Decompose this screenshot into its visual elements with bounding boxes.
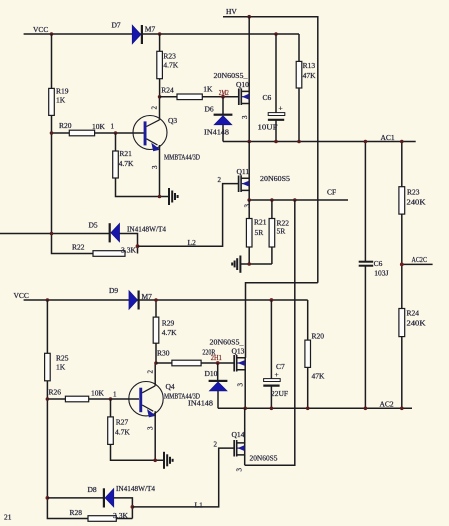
svg-text:M7: M7 <box>145 25 156 34</box>
svg-text:C6: C6 <box>263 93 272 102</box>
junction AC1/R23 branch <box>400 140 404 144</box>
junction gate/D6 <box>221 95 225 99</box>
node HV <box>226 7 237 16</box>
svg-text:R23: R23 <box>407 188 420 197</box>
svg-text:4.7K: 4.7K <box>163 61 178 70</box>
resistor R13 47K <box>296 34 316 142</box>
net label 2H1 <box>211 354 222 362</box>
svg-text:3: 3 <box>241 115 249 119</box>
svg-text:3: 3 <box>236 468 244 472</box>
node VCC (bottom) <box>14 291 29 300</box>
junction base/R27 <box>109 397 113 401</box>
resistor R24 240K <box>399 309 426 409</box>
pin 3 label Q10 source <box>241 115 249 119</box>
junction D8 tee <box>46 496 50 500</box>
svg-text:D8: D8 <box>88 485 97 494</box>
capacitor C6 10UF <box>258 34 285 142</box>
svg-text:AC2C: AC2C <box>412 255 428 264</box>
junction AC1/C6 <box>274 140 278 144</box>
svg-text:R24: R24 <box>161 86 174 95</box>
svg-text:4.7K: 4.7K <box>119 159 134 168</box>
svg-text:IN4148W/T4: IN4148W/T4 <box>127 225 166 234</box>
wire Q10 source to AC1 <box>248 104 250 142</box>
resistor R21 4.7K <box>113 133 169 197</box>
svg-text:R19: R19 <box>56 87 69 96</box>
svg-text:2: 2 <box>218 176 222 184</box>
wire left input row <box>0 233 109 235</box>
svg-text:240K: 240K <box>407 319 427 328</box>
node AC2C <box>402 255 433 265</box>
net label 2M2 <box>219 89 229 97</box>
resistor R20 47K <box>305 300 325 408</box>
junction base/R21 <box>114 131 118 135</box>
svg-text:20N60S5: 20N60S5 <box>250 454 278 463</box>
svg-text:3.3K: 3.3K <box>121 246 137 255</box>
svg-text:1K: 1K <box>56 363 66 372</box>
wire Q13 source to AC2 <box>244 370 246 409</box>
wire Q11 drain <box>248 142 250 179</box>
wire Q14 source down <box>244 455 246 465</box>
svg-text:D6: D6 <box>205 105 214 114</box>
diode D7 <box>112 21 156 45</box>
svg-text:4.7K: 4.7K <box>162 328 177 337</box>
wire L1 to Q14 gate <box>132 448 234 509</box>
junction CF/R21 <box>247 198 251 202</box>
diode D8 IN4148W/T4 <box>47 484 155 519</box>
wire VCC bottom rail <box>24 299 308 301</box>
junction AC2/C7 <box>270 407 274 411</box>
resistor R21 5R <box>246 200 266 264</box>
resistor R26 10K <box>49 388 105 402</box>
svg-text:CF: CF <box>327 188 336 197</box>
svg-text:R24: R24 <box>407 309 420 318</box>
svg-text:47K: 47K <box>303 71 317 80</box>
svg-text:1K: 1K <box>203 85 213 94</box>
resistor R25 1K <box>45 353 69 381</box>
svg-text:20N60S5: 20N60S5 <box>260 174 290 183</box>
transistor Q4 MMBTA44/3D <box>129 382 201 418</box>
wire L2 to Q11 gate <box>138 184 239 247</box>
junction emitter/ground row (bottom) <box>153 459 157 463</box>
pin 3 label Q11 source <box>244 204 252 208</box>
svg-text:+: + <box>279 104 283 113</box>
svg-text:3.3K: 3.3K <box>113 511 129 520</box>
svg-text:2H1: 2H1 <box>211 354 222 362</box>
svg-text:R29: R29 <box>162 319 175 328</box>
svg-text:Q11: Q11 <box>237 167 250 176</box>
svg-text:2: 2 <box>151 106 159 110</box>
wire Q4 emitter to ground <box>154 411 156 460</box>
svg-text:22UF: 22UF <box>271 389 288 398</box>
resistor R28 3.3K row <box>70 508 133 521</box>
svg-text:Q4: Q4 <box>166 382 175 391</box>
junction AC1/branch <box>364 140 368 144</box>
resistor R23 4.7K <box>157 34 179 97</box>
svg-text:10UF: 10UF <box>258 123 278 132</box>
svg-text:R21: R21 <box>119 149 132 158</box>
resistor R20 10K <box>59 121 106 136</box>
junction VCC/R29 <box>154 298 158 302</box>
junction L1 tee <box>131 505 135 509</box>
wire HV rail <box>223 17 318 283</box>
mosfet Q11 20N60S5 <box>237 167 291 192</box>
wire AC1 rail <box>223 133 416 142</box>
wire Q3 emitter to ground <box>159 145 161 197</box>
svg-text:R20: R20 <box>59 121 72 130</box>
svg-text:20N60S5_: 20N60S5_ <box>210 338 244 347</box>
svg-text:R26: R26 <box>49 388 62 397</box>
junction AC2/R20 <box>306 407 310 411</box>
svg-text:1: 1 <box>111 123 115 131</box>
junction HV/Q10 drain <box>247 15 251 19</box>
net label 21 (edge) <box>4 513 12 522</box>
mosfet Q13 20N60S5 <box>210 338 246 372</box>
wire AC1 to C6-103J branch <box>364 142 366 262</box>
resistor R19 1K <box>49 87 69 116</box>
svg-text:5R: 5R <box>277 227 286 236</box>
svg-text:R28: R28 <box>70 508 83 517</box>
resistor R27 4.7K <box>108 399 164 460</box>
junction emitter/ground row <box>158 195 162 199</box>
pin 3 label Q3 emitter <box>151 165 159 169</box>
wire CF down to Q14 source <box>245 200 295 465</box>
ground (sense resistors) <box>232 256 240 273</box>
svg-text:R21: R21 <box>254 218 267 227</box>
svg-text:AC2: AC2 <box>380 400 394 409</box>
transistor Q3 MMBTA44/3D <box>133 116 200 162</box>
pin 3 label Q4 emitter <box>146 426 154 430</box>
pin 1 label Q4 base <box>113 391 117 399</box>
junction VCC rail/C6 <box>274 32 278 36</box>
junction AC1/Q10-Q11 <box>247 140 251 144</box>
capacitor C6 103J <box>359 259 389 408</box>
svg-text:Q10: Q10 <box>236 80 249 89</box>
junction ground row/R21 <box>247 262 251 266</box>
svg-text:R20: R20 <box>312 332 325 341</box>
wire Q14 drain <box>244 408 246 443</box>
junction CF/down-to-Q14 <box>293 198 297 202</box>
svg-text:21: 21 <box>4 513 12 522</box>
wire Q3 collector <box>159 97 161 120</box>
svg-text:47K: 47K <box>312 372 326 381</box>
pin 2 label Q11 gate <box>218 176 222 184</box>
mosfet Q14 20N60S5 <box>232 430 278 463</box>
diode D6 IN4148 <box>204 97 232 142</box>
svg-text:C6: C6 <box>374 259 383 268</box>
svg-text:MMBTA44/3D: MMBTA44/3D <box>164 153 200 162</box>
svg-text:IN4148: IN4148 <box>188 399 213 408</box>
resistor R30 220R row <box>156 348 234 366</box>
wire AC1 to R23-240K branch <box>401 142 403 187</box>
svg-text:Q14: Q14 <box>232 430 245 439</box>
svg-text:5R: 5R <box>255 228 264 237</box>
mosfet Q10 20N60S5 <box>214 71 250 105</box>
junction AC1/R13 <box>297 140 301 144</box>
svg-text:M7: M7 <box>142 292 153 301</box>
wire left vertical (bottom) <box>47 300 88 519</box>
junction L2 tee <box>136 244 140 248</box>
wire Q4 collector <box>154 363 156 386</box>
svg-text:IN4148W/T4: IN4148W/T4 <box>116 484 155 493</box>
junction collector/R29/R30 <box>154 361 158 365</box>
junction VCC/left branch <box>50 32 54 36</box>
svg-text:1K: 1K <box>56 96 66 105</box>
junction VCC/C7 <box>270 298 274 302</box>
svg-text:Q3: Q3 <box>168 116 177 125</box>
ground (Q3 emitter) <box>169 188 178 205</box>
svg-text:1: 1 <box>113 391 117 399</box>
svg-text:R27: R27 <box>116 418 129 427</box>
diode D10 IN4148 <box>188 363 227 408</box>
junction VCC/R23 branch <box>158 32 162 36</box>
wire VCC top rail <box>24 33 299 35</box>
junction R26 left <box>46 397 50 401</box>
pin 2 label Q3 collector <box>151 106 159 110</box>
svg-text:10K: 10K <box>92 122 106 131</box>
svg-text:R30: R30 <box>157 349 170 358</box>
svg-text:Q13: Q13 <box>232 347 245 356</box>
wire left vertical from VCC <box>52 34 94 254</box>
junction collector/R23/R24 <box>158 95 162 99</box>
pin 3 label Q13 source <box>237 383 245 387</box>
pin 1 label Q3 base <box>111 123 115 131</box>
svg-text:+: + <box>275 370 279 379</box>
junction R20 left <box>50 131 54 135</box>
svg-text:IN4148: IN4148 <box>204 128 229 137</box>
wire sense-resistor ground row <box>240 263 272 265</box>
svg-text:AC1: AC1 <box>381 133 395 142</box>
svg-text:L1: L1 <box>195 501 204 510</box>
junction AC2/R24-240K <box>400 407 404 411</box>
ground (Q4 emitter) <box>164 452 173 469</box>
svg-text:2: 2 <box>214 441 218 449</box>
wire Q11 source to CF <box>248 190 250 200</box>
svg-text:20N60S5_: 20N60S5_ <box>214 71 248 80</box>
svg-text:D5: D5 <box>89 221 98 230</box>
wire R20 row <box>52 132 145 134</box>
svg-text:103J: 103J <box>374 269 388 278</box>
svg-text:240K: 240K <box>407 198 427 207</box>
junction AC2/C6-103J <box>364 407 368 411</box>
svg-text:HV: HV <box>226 7 237 16</box>
svg-text:R22: R22 <box>72 243 85 252</box>
svg-text:10K: 10K <box>91 389 105 398</box>
junction VCC/left branch (bottom) <box>46 298 50 302</box>
svg-text:VCC: VCC <box>14 291 29 300</box>
diode D9 <box>109 286 152 310</box>
svg-text:3: 3 <box>151 165 159 169</box>
pin 2 label Q4 collector <box>146 370 154 374</box>
svg-text:R13: R13 <box>303 61 316 70</box>
svg-text:C7: C7 <box>276 362 285 371</box>
svg-text:2: 2 <box>146 370 154 374</box>
svg-text:D10: D10 <box>205 369 218 378</box>
wire HV link to Q13 drain <box>246 283 318 358</box>
resistor R23 240K <box>399 187 426 309</box>
junction AC2C <box>400 263 404 267</box>
wire Q10 drain <box>248 17 250 92</box>
svg-text:D9: D9 <box>109 286 118 295</box>
svg-text:VCC: VCC <box>33 25 48 34</box>
junction gate/D10 <box>216 361 220 365</box>
resistor R29 4.7K <box>153 300 177 363</box>
svg-text:D7: D7 <box>112 21 121 30</box>
wire R26 row <box>47 398 139 400</box>
junction left input/left vertical <box>50 232 54 236</box>
node VCC (top) <box>33 25 48 34</box>
pin 3 label Q14 source <box>236 468 244 472</box>
svg-text:3: 3 <box>146 426 154 430</box>
capacitor C7 22UF <box>263 300 288 408</box>
diode D5 IN4148W/T4 <box>89 221 167 254</box>
svg-text:3: 3 <box>237 383 245 387</box>
resistor R22 5R <box>269 200 289 264</box>
resistor R24 1K row <box>160 85 239 100</box>
svg-text:4.7K: 4.7K <box>115 428 130 437</box>
junction AC2/Q13-Q14 <box>243 407 247 411</box>
wire CF rail <box>249 188 348 201</box>
junction CF/R22 <box>270 198 274 202</box>
svg-text:3: 3 <box>244 204 252 208</box>
svg-text:R23: R23 <box>163 52 176 61</box>
pin 2 label Q14 gate <box>214 441 218 449</box>
resistor R22 3.3K row <box>72 243 137 257</box>
svg-text:R25: R25 <box>56 354 69 363</box>
wire AC2 rail <box>218 400 412 409</box>
svg-text:L2: L2 <box>188 238 197 247</box>
